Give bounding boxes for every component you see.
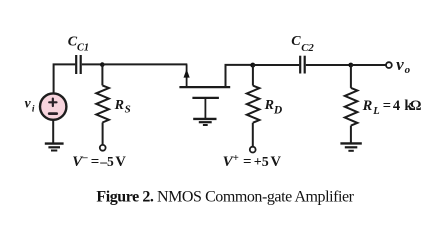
wire node B down to RD bbox=[252, 65, 254, 86]
svg-text:L: L bbox=[372, 106, 379, 117]
svg-text:V: V bbox=[115, 154, 126, 170]
transistor Q1 source arrowhead (pointing up) bbox=[184, 69, 190, 78]
svg-text:Ω: Ω bbox=[410, 98, 422, 114]
wire RS to terminal bbox=[102, 123, 104, 145]
ground at gate bbox=[193, 119, 216, 125]
svg-text:V: V bbox=[271, 154, 282, 170]
open terminal circle V+ bbox=[250, 147, 256, 153]
svg-text:Figure 2. NMOS Common-gate Amp: Figure 2. NMOS Common-gate Amplifier bbox=[96, 189, 354, 206]
svg-text:=: = bbox=[243, 154, 252, 170]
capacitor C1 plates bbox=[76, 55, 81, 74]
resistor RS bbox=[96, 85, 109, 122]
svg-text:–: – bbox=[81, 153, 88, 164]
svg-text:C1: C1 bbox=[77, 42, 89, 53]
svg-text:+: + bbox=[233, 153, 239, 164]
resistor RL bbox=[345, 88, 358, 126]
open terminal circle vo bbox=[386, 62, 392, 68]
open terminal circle V- bbox=[100, 145, 106, 151]
ground below RL bbox=[340, 143, 361, 150]
svg-text:4: 4 bbox=[393, 98, 400, 114]
voltage source minus sign bbox=[49, 112, 57, 115]
label RL = 4 kOhm bbox=[362, 98, 422, 117]
node B junction dot (drain node) bbox=[250, 63, 255, 68]
resistor RD bbox=[247, 86, 260, 123]
wire node C down to RL bbox=[350, 65, 352, 88]
svg-text:S: S bbox=[125, 104, 131, 116]
capacitor C2 plates bbox=[300, 56, 305, 74]
node A junction dot bbox=[100, 62, 105, 67]
svg-text:v: v bbox=[25, 95, 32, 110]
transistor Q1 source vertical with arrow bbox=[186, 64, 188, 87]
wire top-left horizontal from source corner to C1 bbox=[54, 64, 76, 92]
svg-text:C: C bbox=[291, 34, 301, 49]
wire node B to C2 bbox=[253, 64, 299, 66]
transistor Q1 drain vertical bbox=[226, 65, 253, 87]
svg-text:=: = bbox=[91, 154, 100, 170]
svg-text:v: v bbox=[396, 55, 404, 74]
wire vi to ground bbox=[52, 120, 54, 144]
wire C1 to node A bbox=[82, 63, 103, 65]
wire C2 to node C bbox=[306, 64, 351, 66]
svg-text:R: R bbox=[264, 98, 274, 113]
label V- = -5 V bbox=[72, 153, 126, 170]
wire RD to terminal bbox=[252, 123, 254, 147]
svg-text:R: R bbox=[362, 98, 373, 114]
wire node A down to RS bbox=[101, 65, 103, 86]
node C junction dot (output node) bbox=[348, 63, 353, 68]
transistor Q1 channel bbox=[179, 86, 230, 88]
voltage source plus sign bbox=[49, 99, 56, 106]
svg-text:+5: +5 bbox=[254, 155, 269, 170]
svg-text:–5: –5 bbox=[99, 154, 114, 169]
transistor Q1 gate plate bbox=[192, 97, 219, 99]
wire node C to output terminal bbox=[351, 64, 386, 66]
transistor Q1 gate lead down bbox=[204, 98, 206, 119]
ground below vi bbox=[45, 144, 64, 151]
svg-text:o: o bbox=[405, 64, 411, 76]
svg-text:D: D bbox=[273, 105, 283, 117]
wire node A to transistor source bbox=[102, 63, 187, 65]
svg-text:=: = bbox=[383, 98, 391, 114]
wire RL to ground bbox=[350, 126, 352, 144]
svg-text:C2: C2 bbox=[301, 42, 314, 54]
voltage source vi circle bbox=[40, 93, 66, 119]
label V+ = +5 V bbox=[223, 153, 282, 170]
svg-text:R: R bbox=[114, 98, 124, 113]
svg-text:i: i bbox=[32, 105, 35, 115]
